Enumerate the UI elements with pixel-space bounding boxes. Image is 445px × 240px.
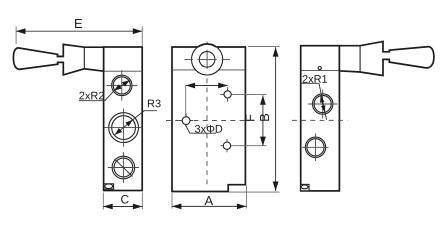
hole spacing dimension line bbox=[186, 85, 228, 87]
right view band bottom line bbox=[301, 70, 340, 72]
dimension A extension lines bbox=[172, 186, 246, 209]
port hole bottom diagonal bbox=[115, 159, 133, 177]
left lever head/mount boundary bbox=[83, 47, 85, 69]
dimension A line bbox=[172, 205, 246, 207]
right lever head and mount bbox=[339, 42, 434, 76]
right view body bbox=[301, 46, 340, 191]
dimension C line bbox=[103, 206, 142, 208]
middle view band bottom line bbox=[172, 69, 245, 71]
label 2xR1 underline bbox=[301, 82, 319, 84]
hole spacing left extension bbox=[185, 86, 187, 117]
left lever head and mount bbox=[13, 44, 103, 75]
2xR1 radius double arrow bbox=[321, 96, 325, 112]
dimension B line bbox=[275, 47, 277, 191]
dimension B top extension bbox=[248, 45, 280, 47]
tiny band hole bbox=[318, 67, 321, 70]
label 2xR2 underline bbox=[79, 100, 105, 102]
3xPhiD leader bbox=[185, 124, 216, 133]
boss crosshair bbox=[185, 50, 231, 69]
left knob neck step bbox=[58, 54, 64, 64]
right lower port outer circle bbox=[305, 137, 325, 157]
port hole bottom inner circle bbox=[114, 158, 133, 177]
svg-text:R3: R3 bbox=[147, 98, 161, 110]
R3 leader bbox=[133, 111, 157, 120]
right top port outer circle bbox=[313, 94, 333, 114]
svg-text:B: B bbox=[257, 113, 272, 122]
boss inner circle bbox=[199, 52, 215, 68]
svg-text:F: F bbox=[243, 114, 258, 122]
mount hole 3xPhiD crosshair bbox=[180, 113, 194, 127]
left view body bbox=[104, 47, 143, 191]
middle view body bbox=[172, 47, 245, 192]
mount hole 3xPhiD circle bbox=[182, 117, 190, 125]
upper pilot hole crosshair bbox=[220, 87, 232, 102]
port hole middle inner circle bbox=[112, 116, 136, 140]
lower pilot hole circle bbox=[223, 142, 230, 149]
right top port inner circle bbox=[314, 95, 331, 112]
boss outer thick top arc bbox=[198, 44, 216, 47]
right lever head/mount boundary bbox=[359, 46, 361, 72]
svg-text:C: C bbox=[120, 192, 129, 206]
2xR1 leader line bbox=[319, 83, 327, 120]
right lower port inner circle bbox=[307, 139, 324, 156]
middle view horizontal centerline bbox=[166, 120, 250, 122]
2xR2 leader bbox=[105, 90, 115, 101]
port hole top (2xR2) crosshair bbox=[107, 70, 138, 100]
port hole top outer circle bbox=[112, 75, 132, 95]
boss outer circle bbox=[192, 44, 223, 75]
left view tab ellipse bbox=[105, 184, 113, 189]
svg-text:E: E bbox=[74, 16, 83, 31]
dimension C extension lines bbox=[103, 193, 142, 210]
2xR2 radius double arrow bbox=[114, 80, 130, 90]
right top port crosshair bbox=[308, 90, 338, 119]
right view tab ellipse bbox=[301, 185, 308, 189]
svg-text:2xR1: 2xR1 bbox=[302, 74, 328, 86]
middle view vertical centerline bbox=[206, 42, 208, 189]
dimension E extension lines bbox=[16, 27, 142, 47]
port hole middle (R3) crosshair bbox=[105, 109, 143, 147]
dimension B bottom extension bbox=[229, 191, 280, 193]
right view horizontal centerline bbox=[292, 119, 348, 121]
lower pilot hole F extension line bbox=[231, 145, 267, 147]
port hole bottom outer circle bbox=[112, 156, 135, 179]
dimension E line bbox=[16, 30, 142, 32]
R3 radius double arrow bbox=[115, 120, 133, 135]
right lower port crosshair bbox=[302, 134, 329, 162]
port hole middle outer circle bbox=[109, 113, 139, 143]
lower pilot hole crosshair bbox=[221, 139, 232, 152]
port hole bottom crosshair bbox=[108, 152, 139, 183]
upper pilot hole circle bbox=[224, 91, 231, 98]
port hole top inner circle bbox=[113, 77, 130, 94]
left view bottom-left tab bbox=[104, 184, 114, 189]
upper pilot hole F extension line bbox=[232, 93, 267, 95]
left view band bottom line bbox=[104, 70, 143, 72]
svg-text:3xΦD: 3xΦD bbox=[194, 124, 222, 136]
dimension F line bbox=[262, 95, 264, 146]
svg-text:A: A bbox=[204, 193, 213, 208]
right view bottom-left tab bbox=[301, 184, 309, 190]
